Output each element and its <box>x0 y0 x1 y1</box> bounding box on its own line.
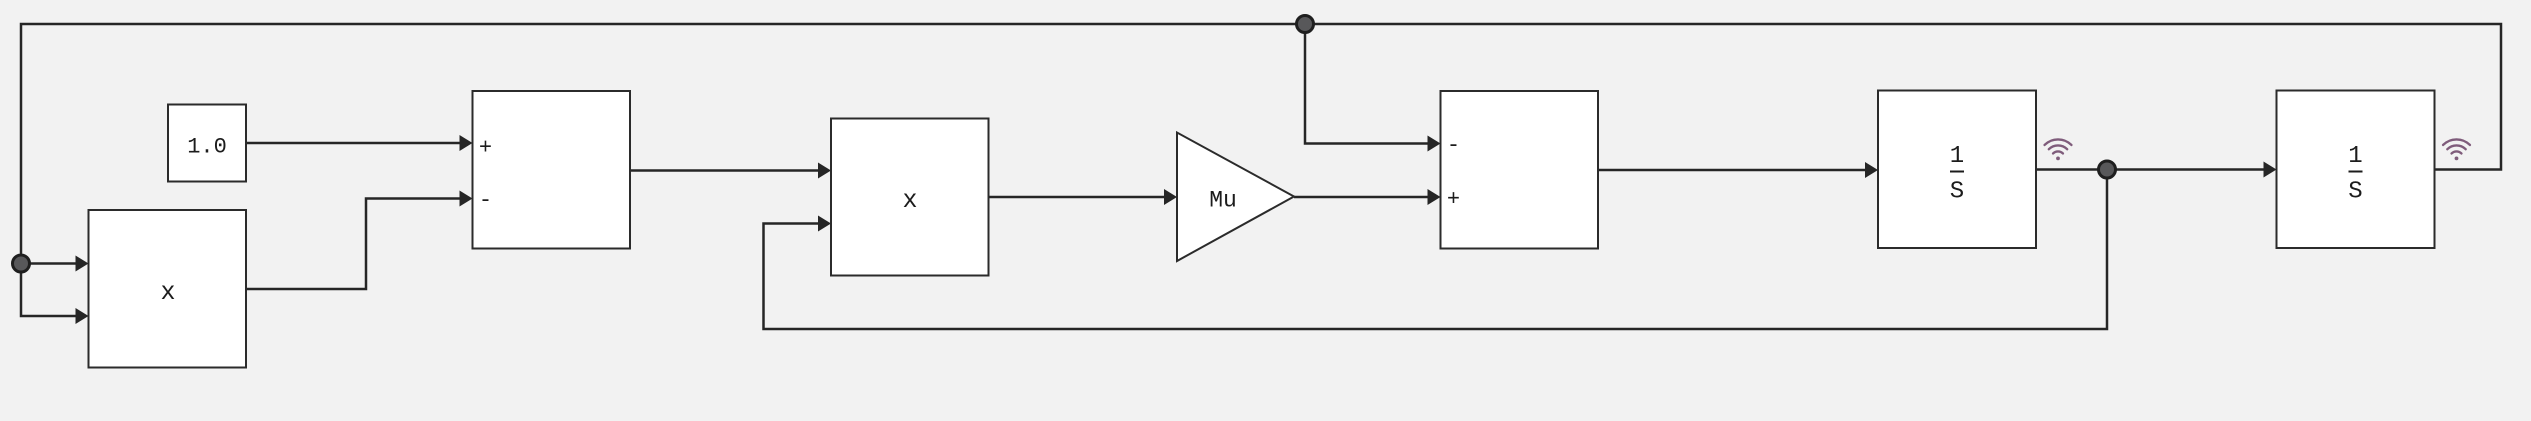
wire: product1 output up to sum1 minus input <box>246 191 473 290</box>
wire: constant 1.0 to sum1 plus input <box>246 135 473 151</box>
svg-text:+: + <box>479 136 492 161</box>
integrator block 2 (1/S) <box>2277 91 2435 249</box>
wifi icon at integrator1 output <box>2045 139 2072 160</box>
wire: branch from left rail into product block input 1 <box>21 256 89 272</box>
svg-text:1.0: 1.0 <box>187 135 227 160</box>
svg-text:x: x <box>160 278 175 307</box>
junction: left rail node <box>13 255 30 272</box>
svg-text:-: - <box>1447 133 1460 158</box>
svg-text:S: S <box>2348 179 2362 206</box>
svg-text:-: - <box>479 188 492 213</box>
wire: main feedback loop from integrator X1 output around top to left rail <box>21 24 2501 324</box>
svg-text:Mu: Mu <box>1209 188 1237 214</box>
integrator block 1 (1/S) <box>1878 91 2036 249</box>
sum block 1 (+ -) <box>473 91 631 249</box>
svg-text:x: x <box>902 186 917 215</box>
wire: product2 output to gain Mu <box>989 189 1178 205</box>
sum block 2 (- +) <box>1441 91 1599 249</box>
svg-text:+: + <box>1447 187 1460 212</box>
svg-text:S: S <box>1950 179 1964 206</box>
wifi icon at integrator2 output <box>2443 139 2470 160</box>
gain block Mu (triangle) <box>1177 133 1294 262</box>
wire: sum1 output to product2 input 1 <box>630 163 831 179</box>
wire: integrator1 output to integrator2 <box>2036 162 2277 178</box>
product block 1 (x squared) <box>89 210 247 368</box>
wire: feedback from node X2 down and back to product2 input 2 <box>764 170 2108 330</box>
svg-text:1: 1 <box>2348 143 2362 170</box>
wire: sum2 output to integrator1 <box>1598 162 1878 178</box>
wire: branch from top rail down to sum2 minus input <box>1305 24 1441 152</box>
junction: top rail node <box>1297 16 1314 33</box>
wire: gain Mu output to sum2 plus input <box>1294 189 1441 205</box>
constant block 1.0 <box>168 105 246 182</box>
product block 2 (x multiply) <box>831 119 989 276</box>
svg-text:1: 1 <box>1950 143 1964 170</box>
junction: integrator1 output node <box>2099 161 2116 178</box>
